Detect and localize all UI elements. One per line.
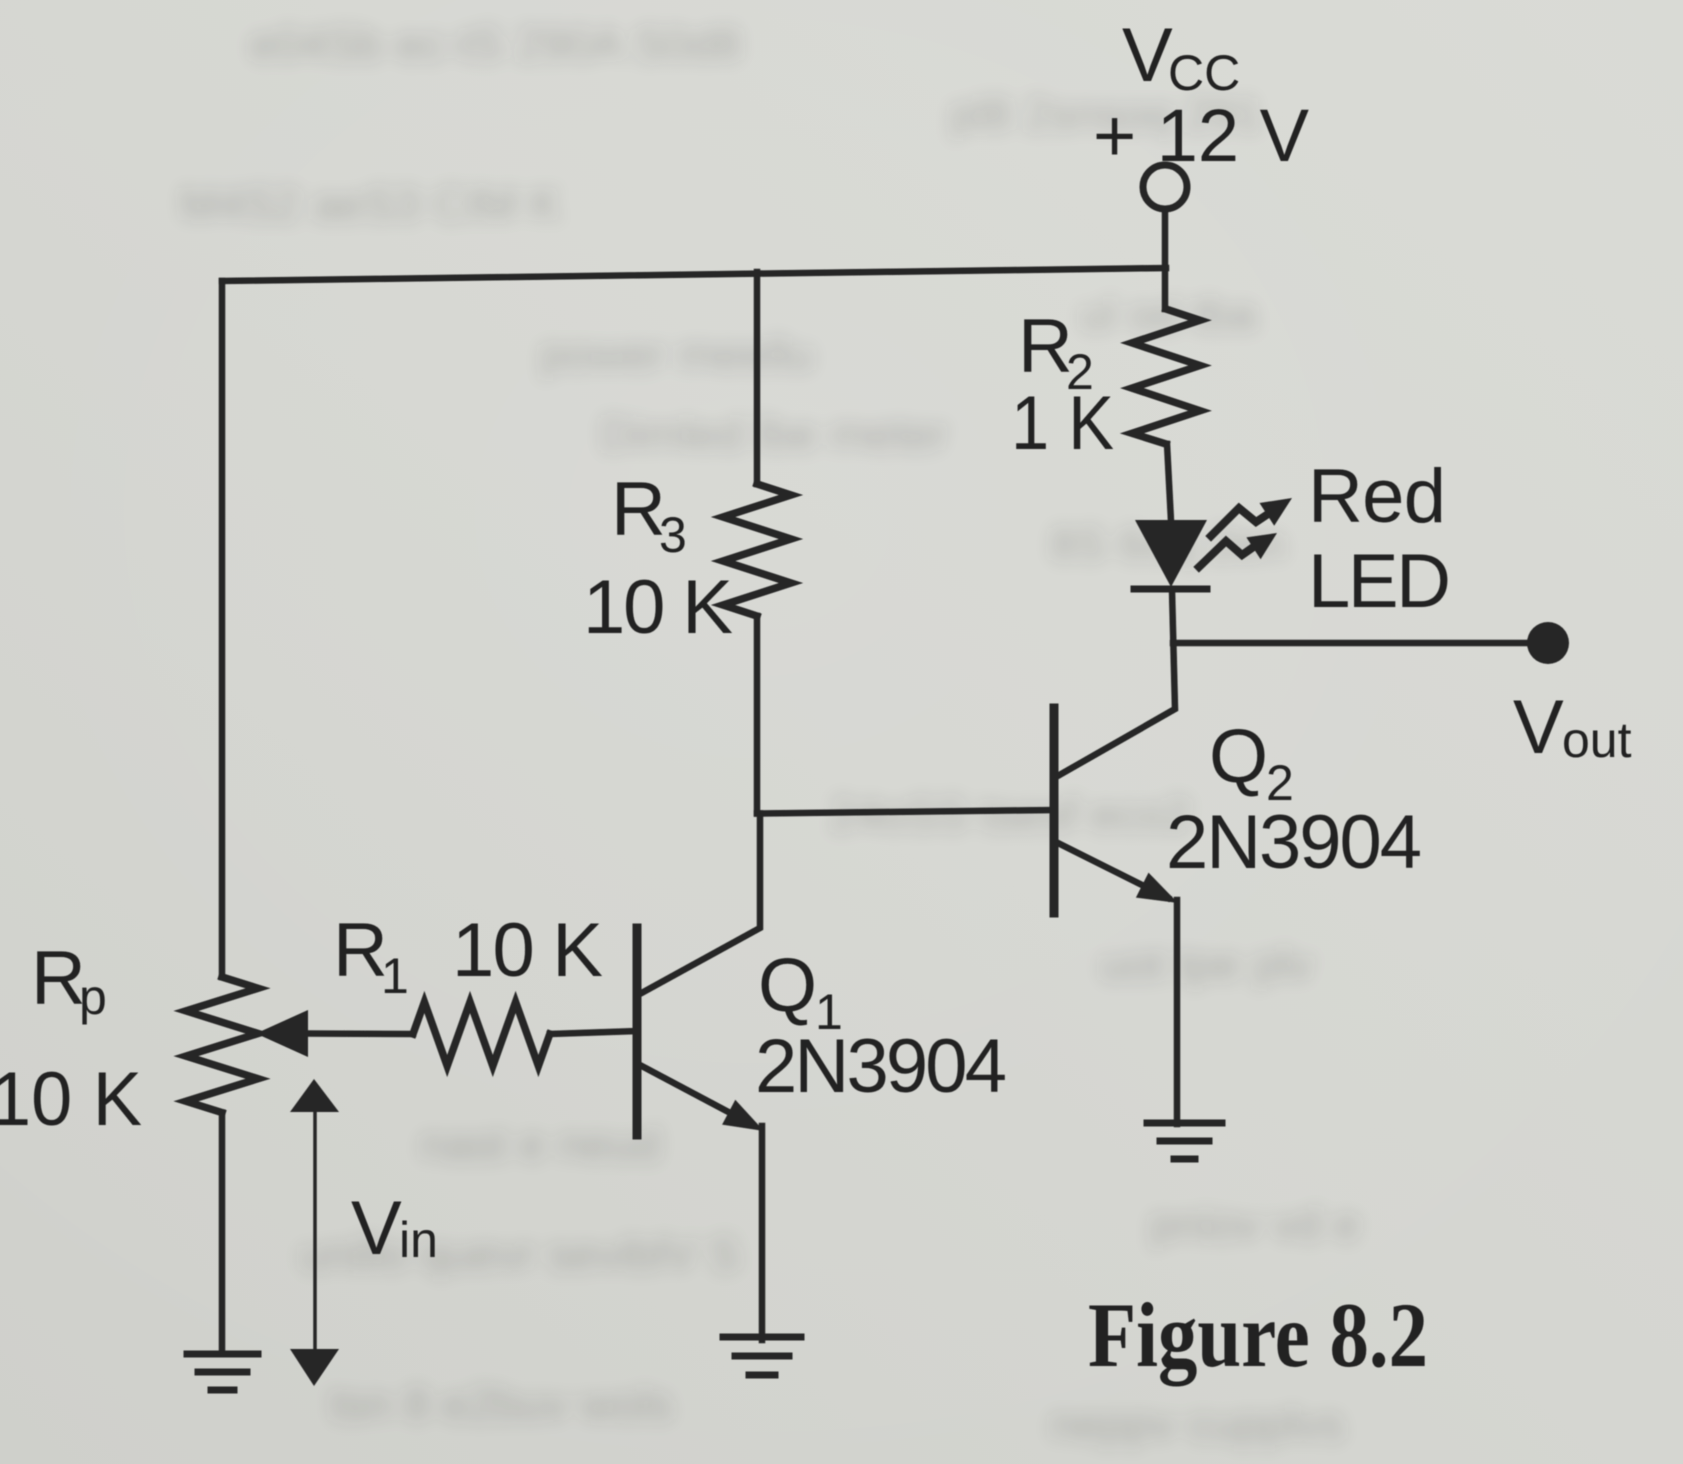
svg-text:R: R (31, 936, 86, 1021)
svg-text:out: out (1562, 712, 1632, 768)
svg-text:neppv cupplvs: neppv cupplvs (1050, 1398, 1344, 1450)
svg-text:10 K: 10 K (583, 565, 733, 650)
svg-text:R: R (333, 908, 388, 993)
svg-text:nast e neud: nast e neud (420, 1118, 660, 1170)
svg-text:+ 12 V: + 12 V (1093, 94, 1310, 177)
svg-text:Q: Q (758, 943, 817, 1028)
svg-text:1 K: 1 K (1011, 381, 1114, 466)
svg-text:Q: Q (1209, 714, 1268, 799)
svg-text:V: V (351, 1186, 402, 1271)
svg-text:e04Sb ec-tS 290A S0d8: e04Sb ec-tS 290A S0d8 (250, 18, 741, 70)
svg-text:R: R (611, 467, 666, 552)
svg-text:2N3904: 2N3904 (755, 1024, 1007, 1109)
svg-text:V: V (1513, 685, 1564, 770)
svg-text:R: R (1018, 304, 1073, 389)
svg-text:Figure 8.2: Figure 8.2 (1088, 1284, 1428, 1386)
svg-text:Red: Red (1308, 454, 1446, 539)
svg-text:LED: LED (1308, 539, 1451, 624)
svg-text:10 K: 10 K (452, 908, 603, 993)
svg-text:uot tpe plv: uot tpe plv (1100, 938, 1312, 990)
svg-text:3: 3 (659, 507, 687, 563)
svg-text:power meellu: power meellu (540, 328, 814, 380)
svg-text:M4S2 aeS3 CIM K: M4S2 aeS3 CIM K (180, 178, 561, 230)
svg-text:V: V (1122, 13, 1173, 98)
svg-text:p: p (79, 969, 107, 1025)
svg-text:1: 1 (381, 948, 409, 1004)
svg-text:Dimled lbe meter: Dimled lbe meter (600, 408, 948, 460)
svg-text:tsn 8 e2buv wols: tsn 8 e2buv wols (330, 1378, 673, 1430)
svg-text:pniov vd e: pniov vd e (1150, 1198, 1360, 1250)
svg-text:CC: CC (1168, 45, 1240, 101)
svg-text:in: in (399, 1212, 438, 1268)
svg-text:10 K: 10 K (0, 1057, 142, 1142)
svg-text:2N3904: 2N3904 (1166, 800, 1422, 885)
